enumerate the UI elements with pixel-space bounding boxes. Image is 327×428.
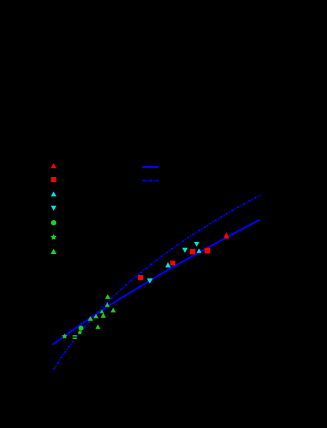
- green triangle 7: [105, 294, 110, 299]
- legend solid line sample: [142, 166, 158, 168]
- green triangle 2: [94, 314, 99, 318]
- red square 1: [138, 275, 143, 280]
- green triangle 1: [88, 316, 93, 321]
- green triangle 5: [111, 308, 116, 313]
- cyan triangle-up 1: [165, 262, 171, 267]
- green circle marker: [79, 326, 84, 331]
- green triangle 3: [101, 313, 106, 318]
- solid blue fit curve: [53, 220, 260, 345]
- green triangle 6: [105, 302, 110, 307]
- cyan triangle-up 2: [197, 248, 202, 253]
- green triangle 8: [100, 309, 104, 313]
- green triangle 4: [95, 324, 100, 329]
- red square 2: [170, 261, 175, 266]
- legend green star: [51, 234, 57, 240]
- legend dash-dot line sample: [143, 180, 159, 182]
- cyan triangle-down 1: [147, 278, 153, 283]
- legend cyan triangle-down: [51, 206, 57, 211]
- legend green circle: [51, 220, 56, 225]
- dash-dot blue fit curve: [54, 195, 261, 370]
- green star marker 2: [77, 330, 82, 335]
- green dash marker b: [73, 338, 77, 339]
- cyan triangle-down 2: [182, 248, 188, 253]
- red square 4: [205, 248, 211, 254]
- legend red triangle-up: [51, 163, 57, 168]
- cyan triangle-down 3: [194, 242, 199, 247]
- legend red square: [51, 177, 56, 182]
- legend green triangle-up: [51, 249, 57, 254]
- green dash marker a: [73, 335, 77, 336]
- legend cyan triangle-up: [51, 191, 57, 196]
- green star marker: [62, 333, 68, 338]
- red square 3: [190, 249, 196, 255]
- red triangle-up: [224, 232, 230, 238]
